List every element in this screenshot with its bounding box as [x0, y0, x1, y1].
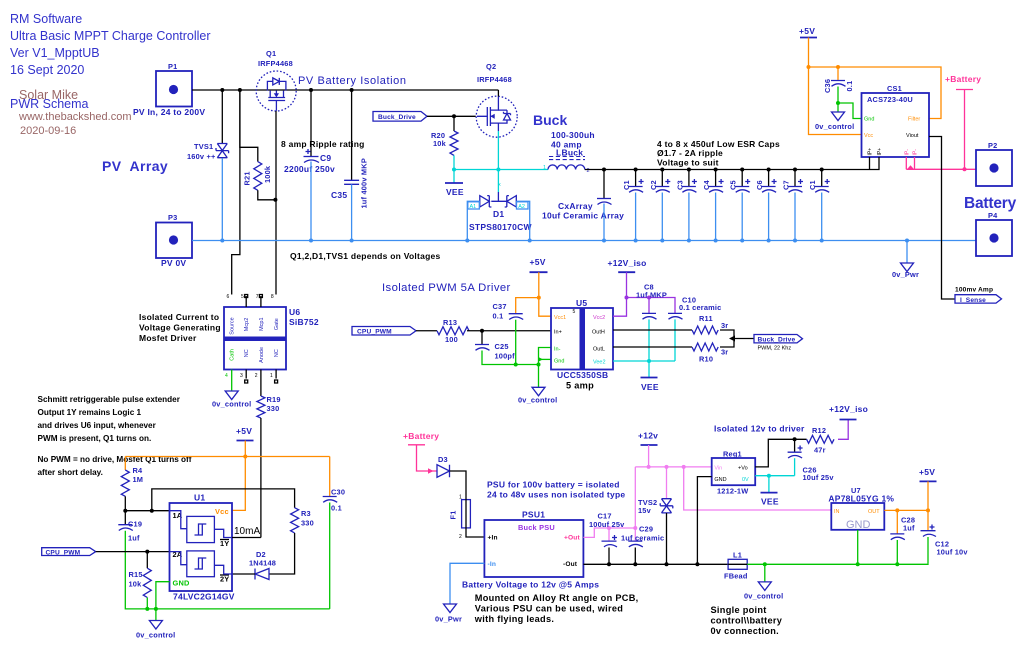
capacitor C8: [636, 283, 667, 320]
svg-text:C36: C36: [823, 79, 832, 93]
node junction on rail at C35: [350, 88, 354, 92]
svg-text:1uf: 1uf: [903, 524, 915, 533]
svg-text:R4: R4: [133, 466, 144, 475]
wire R15 bottom to green bus: [146, 598, 148, 609]
svg-text:L1: L1: [733, 551, 742, 560]
svg-text:IP+: IP+: [877, 148, 883, 156]
pin stub NC bottom: [245, 370, 278, 384]
svg-text:5: 5: [241, 294, 244, 300]
resistor R13: [437, 318, 469, 344]
svg-text:15v: 15v: [638, 506, 652, 515]
svg-text:1uf: 1uf: [128, 534, 140, 543]
svg-text:R15: R15: [129, 570, 143, 579]
svg-text:1Y: 1Y: [220, 539, 229, 548]
svg-text:1M: 1M: [133, 475, 144, 484]
svg-text:U1: U1: [194, 493, 205, 503]
svg-text:R19: R19: [267, 395, 281, 404]
node junction on rail at source line: [238, 88, 242, 92]
svg-text:C5: C5: [729, 180, 738, 190]
wire pink net to Reg1 Vin: [635, 466, 711, 468]
fuse F1: [449, 495, 471, 541]
svg-text:NC: NC: [274, 349, 280, 357]
svg-text:100-300uh: 100-300uh: [551, 130, 595, 140]
svg-text:1: 1: [543, 165, 546, 171]
svg-text:3r: 3r: [721, 321, 728, 330]
capacitor C3: [675, 168, 697, 243]
net label Buck_Drive (to Q2 gate): [373, 112, 427, 122]
svg-text:Schmitt retriggerable pulse ex: Schmitt retriggerable pulse extender: [38, 395, 181, 404]
svg-text:R3: R3: [301, 509, 311, 518]
transistor Q1 IRFP4468: [256, 49, 296, 111]
capacitor C9: [284, 90, 335, 174]
wire R13 to U5 In+: [467, 330, 551, 332]
node rail junction CxArray: [602, 168, 606, 172]
node orange junction +5V: [243, 455, 247, 459]
wire C28 bottom to green bus: [896, 540, 898, 564]
svg-text:P4: P4: [988, 211, 998, 220]
svg-text:A2: A2: [518, 204, 525, 210]
resistor R20: [431, 116, 458, 155]
capacitor C25: [475, 331, 515, 361]
svg-text:2200uf 250v: 2200uf 250v: [284, 164, 335, 174]
svg-text:Filter: Filter: [908, 117, 920, 123]
wire Reg1 +Vo to R12: [755, 439, 806, 467]
wire TVS2 bottom to -Out rail: [666, 513, 668, 564]
svg-text:STPS80170CW: STPS80170CW: [469, 222, 532, 232]
inductor L1 FBead: [724, 551, 748, 581]
svg-text:C29: C29: [639, 525, 653, 534]
resistor R3: [291, 508, 314, 533]
svg-text:PV In, 24 to 200V: PV In, 24 to 200V: [133, 107, 205, 117]
svg-text:Buck_Drive: Buck_Drive: [758, 337, 796, 344]
svg-text:0v_Pwr: 0v_Pwr: [435, 615, 462, 624]
wire Q1 gate line down to U6: [275, 111, 277, 295]
svg-text:0v connection.: 0v connection.: [711, 626, 780, 636]
capacitor C5: [729, 168, 751, 243]
svg-text:R21: R21: [243, 171, 252, 185]
svg-text:+Battery: +Battery: [945, 74, 981, 84]
svg-text:1uf 400v MKP: 1uf 400v MKP: [360, 158, 369, 208]
wire +Battery to D3 (pink): [417, 445, 438, 471]
resistor R4: [121, 466, 143, 496]
svg-text:C3: C3: [675, 180, 684, 190]
svg-text:+5V: +5V: [799, 26, 815, 36]
svg-text:0v_Pwr: 0v_Pwr: [892, 270, 919, 279]
connector P2: [976, 141, 1012, 186]
wire C28 stub (orange): [896, 510, 898, 534]
net label I_Sense: [955, 287, 1002, 304]
svg-text:100pf: 100pf: [495, 352, 516, 361]
svg-text:C19: C19: [128, 520, 142, 529]
tvs TVS1: [187, 142, 229, 161]
tvs TVS2: [638, 498, 673, 515]
svg-text:C35: C35: [331, 190, 347, 200]
node purple junction: [625, 296, 629, 300]
svg-text:+Out: +Out: [564, 535, 580, 542]
node switch junction Q2/D1: [496, 168, 500, 172]
svg-text:NC: NC: [244, 349, 250, 357]
svg-text:+12v: +12v: [638, 431, 658, 441]
wire Reg1 GND to -Out rail: [697, 477, 711, 565]
capacitor C10: [668, 296, 721, 320]
net label CPU_PWM (driver): [352, 327, 416, 336]
wire C29 bottom to -Out rail: [634, 548, 636, 565]
power symbol +5V (U7): [919, 467, 937, 481]
power symbol +12V_iso (R12): [829, 404, 868, 420]
svg-text:PV 0V: PV 0V: [161, 258, 186, 268]
svg-text:Various PSU can be used, wired: Various PSU can be used, wired: [475, 604, 623, 614]
svg-text:P3: P3: [168, 213, 177, 222]
capacitor C6: [755, 168, 777, 243]
svg-text:3: 3: [240, 373, 243, 379]
svg-text:2020-09-16: 2020-09-16: [20, 125, 76, 137]
svg-text:ACS723-40U: ACS723-40U: [867, 95, 913, 104]
svg-text:0.1 ceramic: 0.1 ceramic: [679, 303, 721, 312]
svg-text:1212-1W: 1212-1W: [717, 487, 748, 496]
svg-text:Gnd: Gnd: [864, 117, 874, 123]
svg-text:24 to 48v uses non isolated ty: 24 to 48v uses non isolated type: [487, 490, 625, 500]
svg-text:Isolated PWM 5A Driver: Isolated PWM 5A Driver: [382, 282, 511, 294]
svg-text:Mounted on Alloy Rt angle on P: Mounted on Alloy Rt angle on PCB,: [475, 593, 639, 603]
svg-text:+12V_iso: +12V_iso: [608, 258, 647, 268]
wire -Out rail: [583, 563, 728, 565]
svg-text:C1: C1: [808, 180, 817, 190]
svg-text:100uf 25v: 100uf 25v: [589, 520, 625, 529]
wire C26 bottom to 0V (cyan): [794, 458, 796, 476]
net label CPU_PWM (input): [42, 548, 96, 557]
svg-text:5: 5: [573, 309, 576, 315]
svg-text:PWM, 22 Khz: PWM, 22 Khz: [758, 346, 792, 352]
svg-text:0.1: 0.1: [331, 504, 342, 513]
wire 0v_Pwr rail P3 to P4: [192, 240, 976, 242]
wire +5V down to C12 (orange): [927, 481, 929, 530]
svg-text:16 Sept 2020: 16 Sept 2020: [10, 63, 84, 77]
wire 1A input net: [125, 510, 169, 512]
op-amp U5 UCC5350SB isolated gate driver: [551, 298, 613, 391]
svg-text:+5V: +5V: [236, 426, 252, 436]
svg-text:Mosfet Driver: Mosfet Driver: [139, 333, 197, 343]
svg-text:10uf 25v: 10uf 25v: [803, 473, 835, 482]
svg-text:74LVC2G14GV: 74LVC2G14GV: [173, 592, 235, 602]
voltage regulator Reg1 1212-1W: [712, 450, 756, 496]
svg-text:Vcc1: Vcc1: [554, 315, 566, 321]
svg-text:Buck_Drive: Buck_Drive: [378, 114, 416, 121]
wire CS1 IP- pins to battery (pink): [905, 157, 907, 169]
op-amp PSU1 Buck PSU module: [484, 510, 583, 578]
svg-text:C7: C7: [782, 180, 791, 190]
svg-text:Ultra Basic MPPT Charge Contro: Ultra Basic MPPT Charge Controller: [10, 29, 211, 43]
capacitor C8b: [808, 168, 830, 243]
wire C37 branch (orange): [516, 298, 539, 314]
node 0v rail junction C35: [350, 239, 354, 243]
svg-text:A1: A1: [470, 204, 477, 210]
svg-text:2: 2: [459, 534, 462, 540]
power symbol VEE (near Q2): [445, 183, 464, 197]
svg-text:2Y: 2Y: [220, 575, 229, 584]
svg-text:U5: U5: [576, 298, 587, 308]
svg-text:IRFP4468: IRFP4468: [258, 59, 293, 68]
svg-text:OUT: OUT: [868, 509, 880, 515]
diode D2 1N4148: [249, 550, 276, 580]
wire 1Y to R19 line: [232, 537, 261, 539]
svg-text:TVS1: TVS1: [194, 142, 213, 151]
wire Q1 source line down to U6: [232, 90, 240, 295]
wire PSU1 +Out (pink): [583, 528, 635, 537]
wire green bus L1 to C12: [747, 563, 928, 566]
wire GND pin to ground (green): [156, 582, 170, 609]
power symbol VEE (Reg1): [761, 493, 779, 507]
wire U5 Vee2 (cyan): [613, 360, 675, 362]
schmitt inverter 1: [187, 516, 215, 542]
wire C17 bottom to -Out rail: [608, 548, 610, 565]
wire U5 Gnd (green): [539, 358, 552, 360]
svg-text:0v_control: 0v_control: [212, 400, 251, 409]
svg-text:Source: Source: [230, 317, 236, 334]
voltage regulator U7 AP78L05YG: [828, 486, 894, 531]
wire orange net horizontal: [125, 456, 329, 458]
svg-text:Buck: Buck: [533, 112, 567, 128]
wire CS1 IP+ pins to rail: [869, 157, 871, 170]
wire TVS1 top lead: [221, 90, 223, 143]
svg-text:Vcc: Vcc: [215, 507, 229, 516]
op-amp U6 SiB752 isolated mosfet driver: [224, 294, 319, 383]
svg-text:PWR Schema: PWR Schema: [10, 97, 89, 111]
svg-text:OutL: OutL: [593, 347, 605, 353]
svg-text:C4: C4: [702, 179, 711, 190]
svg-text:R11: R11: [699, 314, 713, 323]
wire +5V to U5 Vcc1 (orange): [539, 272, 551, 316]
svg-text:Vin: Vin: [714, 466, 722, 472]
node junction on rail at C9: [309, 88, 313, 92]
wire orange to U1 Vcc: [232, 457, 245, 511]
node junction on rail at TVS1: [220, 88, 224, 92]
wire PSU1 -In to 0v_Pwr (light blue): [450, 563, 484, 604]
wire CPU_PWM to R13: [416, 330, 437, 332]
wire +5V stub to orange net: [244, 441, 246, 457]
wire +Battery to P2 (pink): [964, 90, 966, 170]
node switch junction R20/VEE: [452, 168, 456, 172]
wire TVS1 bottom to 0v rail: [221, 158, 223, 241]
svg-text:+Vo: +Vo: [738, 466, 748, 472]
svg-text:FBead: FBead: [724, 572, 748, 581]
svg-text:control\\battery: control\\battery: [711, 616, 783, 626]
wire +12v stub (pink): [648, 445, 650, 467]
power symbol +5V (U1): [236, 426, 254, 441]
svg-text:+5V: +5V: [919, 467, 935, 477]
svg-text:C37: C37: [493, 302, 507, 311]
wire feedback over to R3: [152, 489, 295, 511]
svg-text:Cath: Cath: [230, 349, 236, 361]
node pink junction: [963, 167, 967, 171]
wire C36 bottom (green): [837, 87, 839, 113]
capacitor C12: [921, 525, 969, 557]
node 0v rail junction TVS1: [220, 239, 224, 243]
svg-text:CPU_PWM: CPU_PWM: [357, 329, 392, 336]
wire C19 bottom to green bus: [125, 531, 329, 609]
svg-text:Vee2: Vee2: [593, 360, 606, 366]
svg-text:www.thebackshed.com: www.thebackshed.com: [18, 111, 132, 123]
node junction gate/R20: [452, 114, 456, 118]
wire orange to C30 top: [329, 457, 331, 497]
svg-text:0v_control: 0v_control: [815, 122, 854, 131]
svg-text:In+: In+: [554, 330, 562, 336]
svg-text:PWM is present, Q1 turns on.: PWM is present, Q1 turns on.: [38, 434, 152, 443]
svg-text:Mcp1: Mcp1: [259, 317, 265, 330]
svg-text:CPU_PWM: CPU_PWM: [46, 550, 81, 557]
wire C25 bottom to gnd (green): [482, 351, 539, 365]
svg-text:C25: C25: [495, 342, 509, 351]
node orange junction C36: [836, 65, 840, 69]
wire C17 stub (pink): [608, 528, 610, 541]
node green junction: [537, 363, 541, 367]
wire C35 bottom to 0v rail: [351, 184, 353, 240]
diode D1 STPS80170CW dual schottky: [469, 192, 532, 232]
connector P3: [156, 213, 192, 268]
svg-text:x: x: [498, 182, 501, 188]
wire switch node bus: [454, 169, 548, 171]
wire TVS2 stub (pink): [666, 467, 668, 498]
svg-text:Voltage Generating: Voltage Generating: [139, 323, 221, 333]
svg-text:10k: 10k: [433, 139, 447, 148]
svg-text:D1: D1: [493, 209, 504, 219]
svg-text:UCC5350SB: UCC5350SB: [557, 370, 608, 380]
node 0v junction CxArray: [602, 239, 606, 243]
wire orange to R4 top: [124, 457, 126, 471]
svg-text:0v_control: 0v_control: [518, 396, 557, 405]
svg-text:+12V_iso: +12V_iso: [829, 404, 868, 414]
svg-text:VEE: VEE: [641, 382, 659, 392]
wire C12 bottom to green bus: [927, 537, 929, 564]
node green junction C36: [836, 101, 840, 105]
svg-text:Isolated 12v to driver: Isolated 12v to driver: [714, 424, 805, 434]
svg-text:IN: IN: [834, 509, 840, 515]
wire U7 OUT to +5V (orange): [884, 509, 928, 511]
wire C9 bottom to 0v rail: [310, 162, 312, 241]
wire OutL to R10: [613, 346, 692, 348]
capacitor C1: [622, 168, 644, 243]
resistor R19: [257, 395, 281, 418]
svg-text:C9: C9: [320, 153, 331, 163]
resistor R21: [240, 90, 276, 200]
svg-text:Gate: Gate: [274, 318, 280, 330]
svg-text:10uf 10v: 10uf 10v: [937, 548, 969, 557]
svg-text:0v_control: 0v_control: [136, 631, 175, 640]
capacitor C29: [621, 525, 664, 547]
svg-text:10k: 10k: [129, 580, 143, 589]
node 0v rail junction D1 right: [528, 239, 532, 243]
schmitt inverter 2: [187, 551, 215, 577]
svg-text:PV Array: PV Array: [102, 158, 168, 174]
pin stub NC top: [245, 295, 263, 308]
svg-text:and drives U6 input, whenever: and drives U6 input, whenever: [38, 421, 157, 430]
svg-text:F1: F1: [449, 510, 458, 519]
svg-text:Buck PSU: Buck PSU: [518, 523, 555, 532]
svg-text:100mv Amp: 100mv Amp: [955, 287, 993, 294]
svg-text:P1: P1: [168, 62, 177, 71]
power symbol +5V (U5): [530, 257, 548, 272]
wire C8/C10 bottoms to VEE (cyan): [648, 319, 650, 361]
svg-text:P2: P2: [988, 141, 997, 150]
op-amp CS1 ACS723-40U current sensor: [862, 84, 930, 157]
capacitor C2: [649, 168, 671, 243]
svg-text:Ver V1_MpptUB: Ver V1_MpptUB: [10, 46, 100, 60]
ground 0v_control (CS1): [815, 112, 854, 131]
svg-text:with flying leads.: with flying leads.: [474, 614, 554, 624]
capacitor C36: [823, 79, 854, 93]
svg-text:CS1: CS1: [887, 84, 902, 93]
svg-text:Q2: Q2: [486, 62, 496, 71]
svg-text:Battery: Battery: [964, 195, 1017, 212]
svg-text:Output 1Y remains Logic 1: Output 1Y remains Logic 1: [38, 408, 142, 417]
ground 0v_control (U6): [212, 391, 251, 409]
svg-text:+Battery: +Battery: [403, 431, 439, 441]
node orange junction: [807, 65, 811, 69]
svg-text:VEE: VEE: [761, 497, 779, 507]
ground 0v_control (L1): [744, 582, 783, 601]
svg-text:Viout: Viout: [906, 133, 919, 139]
svg-text:In-: In-: [554, 347, 561, 353]
node junction C25: [480, 329, 484, 333]
svg-text:PV Battery Isolation: PV Battery Isolation: [298, 75, 407, 87]
capacitor C17: [589, 512, 625, 547]
svg-text:1uf ceramic: 1uf ceramic: [621, 534, 664, 543]
wire to VEE symbol (cyan): [648, 361, 650, 378]
svg-text:C6: C6: [755, 180, 764, 190]
svg-text:PSU for 100v battery = isolate: PSU for 100v battery = isolated: [487, 480, 620, 490]
svg-text:2: 2: [255, 373, 258, 379]
svg-text:Ø1.7 - 2A ripple: Ø1.7 - 2A ripple: [657, 148, 723, 158]
node junction R21 to gate line: [273, 198, 277, 202]
svg-text:after short delay.: after short delay.: [38, 468, 103, 477]
node 0v rail junction C9: [309, 239, 313, 243]
capacitor C30: [323, 488, 345, 513]
svg-text:8: 8: [271, 294, 274, 300]
wire D3 cathode to F1: [450, 471, 467, 495]
connector P1: [133, 62, 205, 117]
svg-text:IP-: IP-: [913, 149, 919, 156]
svg-text:+In: +In: [488, 535, 498, 542]
wire purple branch to C8/C10: [627, 298, 676, 314]
svg-text:IRFP4468: IRFP4468: [477, 75, 512, 84]
svg-text:Q1,2,D1,TVS1 depends on Voltag: Q1,2,D1,TVS1 depends on Voltages: [290, 251, 441, 261]
wire C36 top stub (orange): [837, 67, 839, 81]
diode D3: [437, 455, 450, 477]
capacitor C4: [702, 168, 724, 243]
wire pink to U7 IN: [684, 467, 832, 510]
power symbol +12v (Reg1): [638, 431, 658, 446]
wire to VEE (cyan): [768, 476, 770, 493]
node 0v rail junction D1 left: [465, 239, 469, 243]
svg-text:GND: GND: [173, 579, 190, 588]
svg-text:PSU1: PSU1: [522, 510, 545, 520]
resistor R12: [807, 426, 834, 455]
svg-text:0.1: 0.1: [493, 312, 504, 321]
svg-text:U6: U6: [289, 307, 300, 317]
wire Reg1 0V (cyan): [755, 475, 794, 477]
svg-text:1N4148: 1N4148: [249, 559, 276, 568]
svg-text:I_Sense: I_Sense: [960, 297, 986, 304]
svg-text:AP78L05YG 1%: AP78L05YG 1%: [828, 494, 894, 504]
capacitor C35: [331, 90, 369, 209]
wire to ground (green): [538, 365, 540, 388]
wire U5 In- (green): [539, 348, 552, 365]
svg-text:IP+: IP+: [868, 148, 874, 156]
wire Viout to I_Sense: [929, 137, 955, 300]
wire C37 bottom down to gnd net (green): [515, 320, 517, 365]
power symbol +Battery (PSU): [403, 431, 439, 445]
capacitor C28: [890, 516, 915, 540]
wire Q2 source to switch node: [497, 131, 499, 170]
